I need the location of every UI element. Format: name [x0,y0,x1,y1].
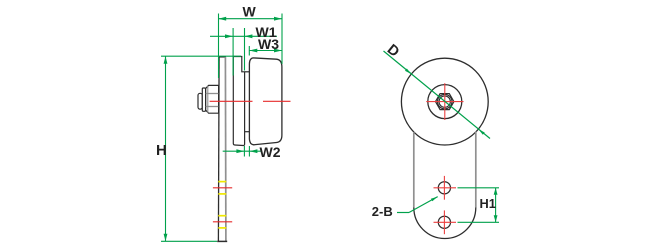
nut body [206,85,219,113]
wheel axis centerline dash [263,100,291,102]
2-B leader arrow [431,197,438,202]
hub boss bottom edge [245,131,250,133]
W dimension line [218,18,282,20]
W1 left extension line [232,28,234,76]
W3 left extension tick [248,46,250,56]
D diameter line [384,51,491,139]
upper hole crosshair horizontal [434,187,457,189]
nut facet line upper [206,93,219,95]
bushing [233,57,244,146]
upper hole hidden edge bottom [218,193,226,195]
W2 right extension tick [248,146,250,157]
wheel axis centerline [210,100,253,102]
bolt flange washer [202,88,205,111]
svg-text:W: W [243,4,257,20]
2-B leader diagonal [409,197,438,213]
H1 lower extension line [458,221,500,223]
D arrow lower [478,129,484,135]
W2 left extension tick [243,146,245,157]
D arrow upper [405,68,411,74]
svg-text:W3: W3 [258,36,279,52]
nut left chamfer line [207,86,209,113]
lower hole hidden edge top [218,215,226,217]
lower mounting hole [438,216,450,228]
svg-text:2-B: 2-B [372,204,393,219]
lower hole centerline (side view) [213,221,232,223]
upper hole hidden edge top [218,181,226,183]
H dimension line [165,56,167,241]
W right extension line [281,14,283,65]
W2 dimension line [223,150,261,152]
upper hole centerline (side view) [213,187,232,189]
plate top edge [218,56,226,58]
svg-text:H1: H1 [480,196,496,211]
hub outer circle [428,85,462,119]
W3 dimension line [249,50,282,52]
wheel circle (front view) [401,58,488,145]
nut facet line lower [206,106,219,108]
H1 upper extension line [458,187,500,189]
W1 right extension line [244,28,246,71]
plate right edge [224,57,227,241]
H1 dimension line [495,188,497,223]
svg-text:H: H [156,142,167,159]
hub boss top edge [245,71,250,73]
upper mounting hole [438,182,450,194]
plate bottom edge [217,240,227,242]
lower hole crosshair horizontal [434,221,457,223]
bracket bottom arc [414,208,476,239]
wheel [249,58,282,145]
hex nut front [436,94,454,110]
bracket left side (front view) [413,132,415,208]
bracket right side (front view) [475,132,477,208]
bolt head [198,93,202,109]
plate left edge [217,57,220,242]
W1 dimension line [210,35,277,37]
hub crosshair horizontal [426,101,463,103]
lower hole crosshair vertical [443,210,445,234]
W left extension line [218,14,220,79]
H dimension top extension line [161,55,241,57]
2-B leader horizontal [397,212,409,214]
svg-text:W2: W2 [260,144,281,160]
hub crosshair vertical [444,83,446,120]
axle chamfer circle [438,94,452,108]
H dimension bottom extension line [161,240,217,242]
upper hole crosshair vertical [443,176,445,200]
lower hole hidden edge bottom [218,227,226,229]
axle bore circle [439,96,450,107]
